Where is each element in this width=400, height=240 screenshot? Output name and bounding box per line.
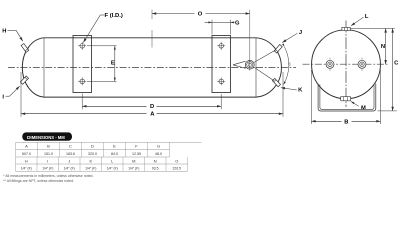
svg-text:1/4" (F): 1/4" (F) bbox=[42, 167, 53, 171]
svg-text:B: B bbox=[344, 119, 348, 125]
svg-text:E: E bbox=[113, 144, 116, 149]
svg-text:I: I bbox=[47, 158, 48, 163]
svg-text:K: K bbox=[298, 88, 303, 94]
svg-text:O: O bbox=[198, 12, 203, 18]
svg-text:G: G bbox=[235, 20, 240, 26]
svg-text:** All fittings are NPT, unles: ** All fittings are NPT, unless otherwis… bbox=[3, 179, 74, 183]
svg-text:1/4" (F): 1/4" (F) bbox=[107, 167, 118, 171]
svg-text:E: E bbox=[111, 60, 115, 66]
svg-text:H: H bbox=[25, 158, 28, 163]
svg-text:320.0: 320.0 bbox=[88, 152, 97, 156]
svg-text:A: A bbox=[150, 112, 155, 118]
svg-text:F (I.D.): F (I.D.) bbox=[105, 13, 123, 19]
svg-text:183.6: 183.6 bbox=[66, 152, 75, 156]
svg-text:226.5: 226.5 bbox=[173, 167, 182, 171]
svg-text:H: H bbox=[2, 28, 6, 34]
svg-text:N: N bbox=[381, 44, 385, 50]
svg-text:93.5: 93.5 bbox=[152, 167, 159, 171]
svg-text:C: C bbox=[394, 61, 399, 67]
svg-text:M: M bbox=[132, 158, 135, 163]
svg-text:O: O bbox=[175, 158, 178, 163]
svg-text:J: J bbox=[299, 30, 302, 36]
svg-text:J: J bbox=[68, 158, 70, 163]
svg-text:* All measurements in millimet: * All measurements in millimeters, unles… bbox=[3, 174, 93, 178]
svg-text:K: K bbox=[89, 158, 92, 163]
svg-text:G: G bbox=[157, 144, 160, 149]
svg-text:F: F bbox=[135, 144, 138, 149]
svg-text:90°: 90° bbox=[287, 63, 291, 67]
svg-text:I: I bbox=[2, 94, 4, 100]
svg-text:48.0: 48.0 bbox=[155, 152, 162, 156]
svg-text:12.55: 12.55 bbox=[132, 152, 141, 156]
svg-text:84.0: 84.0 bbox=[111, 152, 118, 156]
svg-text:B: B bbox=[47, 144, 50, 149]
svg-text:M: M bbox=[361, 106, 366, 112]
svg-text:1/4" (F): 1/4" (F) bbox=[64, 167, 75, 171]
svg-text:D: D bbox=[150, 104, 154, 110]
svg-text:1/4" (F): 1/4" (F) bbox=[128, 167, 139, 171]
svg-text:C: C bbox=[69, 144, 72, 149]
svg-text:607.0: 607.0 bbox=[22, 152, 31, 156]
svg-text:L: L bbox=[365, 14, 369, 20]
svg-text:1/4" (F): 1/4" (F) bbox=[21, 167, 32, 171]
svg-text:N: N bbox=[154, 158, 157, 163]
svg-text:L: L bbox=[111, 158, 114, 163]
svg-text:A: A bbox=[25, 144, 28, 149]
svg-text:D: D bbox=[91, 144, 94, 149]
svg-text:151.0: 151.0 bbox=[44, 152, 53, 156]
svg-text:1/4" (F): 1/4" (F) bbox=[85, 167, 96, 171]
